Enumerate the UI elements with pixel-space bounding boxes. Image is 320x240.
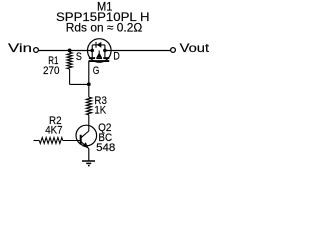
terminal Vout <box>171 48 176 53</box>
M1 channel bars <box>89 57 109 59</box>
wire Vin to M1 source <box>39 50 93 52</box>
Q2 emitter arrow <box>82 142 88 148</box>
M1 gate bar <box>89 60 110 62</box>
resistor R3 <box>86 84 91 131</box>
transistor Q2 <box>76 125 97 148</box>
svg-text:S: S <box>76 51 82 63</box>
Q2 emitter diagonal <box>81 142 89 149</box>
svg-text:4K7: 4K7 <box>45 125 62 137</box>
wire R1 bottom to gate node <box>70 83 89 85</box>
svg-text:548: 548 <box>96 142 115 154</box>
wire Q2 emitter to ground <box>88 149 90 162</box>
junction dot gate node <box>87 82 91 86</box>
svg-text:1K: 1K <box>94 105 106 117</box>
Q2 collector diagonal <box>81 131 89 138</box>
svg-text:D: D <box>113 50 120 62</box>
resistor R2 <box>34 138 81 144</box>
M1 body diode branch <box>92 42 105 51</box>
M1 source-drain junction dots <box>90 49 94 53</box>
M1 channel verticals <box>91 51 93 58</box>
Q2 base bar <box>80 135 82 145</box>
svg-text:Vin: Vin <box>8 41 32 55</box>
mosfet M1 <box>88 39 112 63</box>
wire M1 drain to Vout <box>105 50 171 52</box>
svg-text:G: G <box>93 65 100 77</box>
resistor R1 <box>67 50 72 84</box>
svg-text:Vout: Vout <box>180 41 209 55</box>
svg-text:Rds on ≈ 0.2Ω: Rds on ≈ 0.2Ω <box>66 21 143 35</box>
terminal Vin <box>34 48 39 53</box>
M1 body circle <box>88 39 112 63</box>
svg-text:270: 270 <box>43 65 60 77</box>
Q2 body circle <box>76 125 97 146</box>
M1 bulk arrow <box>98 51 100 53</box>
wire gate lead <box>88 61 90 84</box>
ground <box>82 161 95 166</box>
junction dot R1 top <box>68 49 72 53</box>
